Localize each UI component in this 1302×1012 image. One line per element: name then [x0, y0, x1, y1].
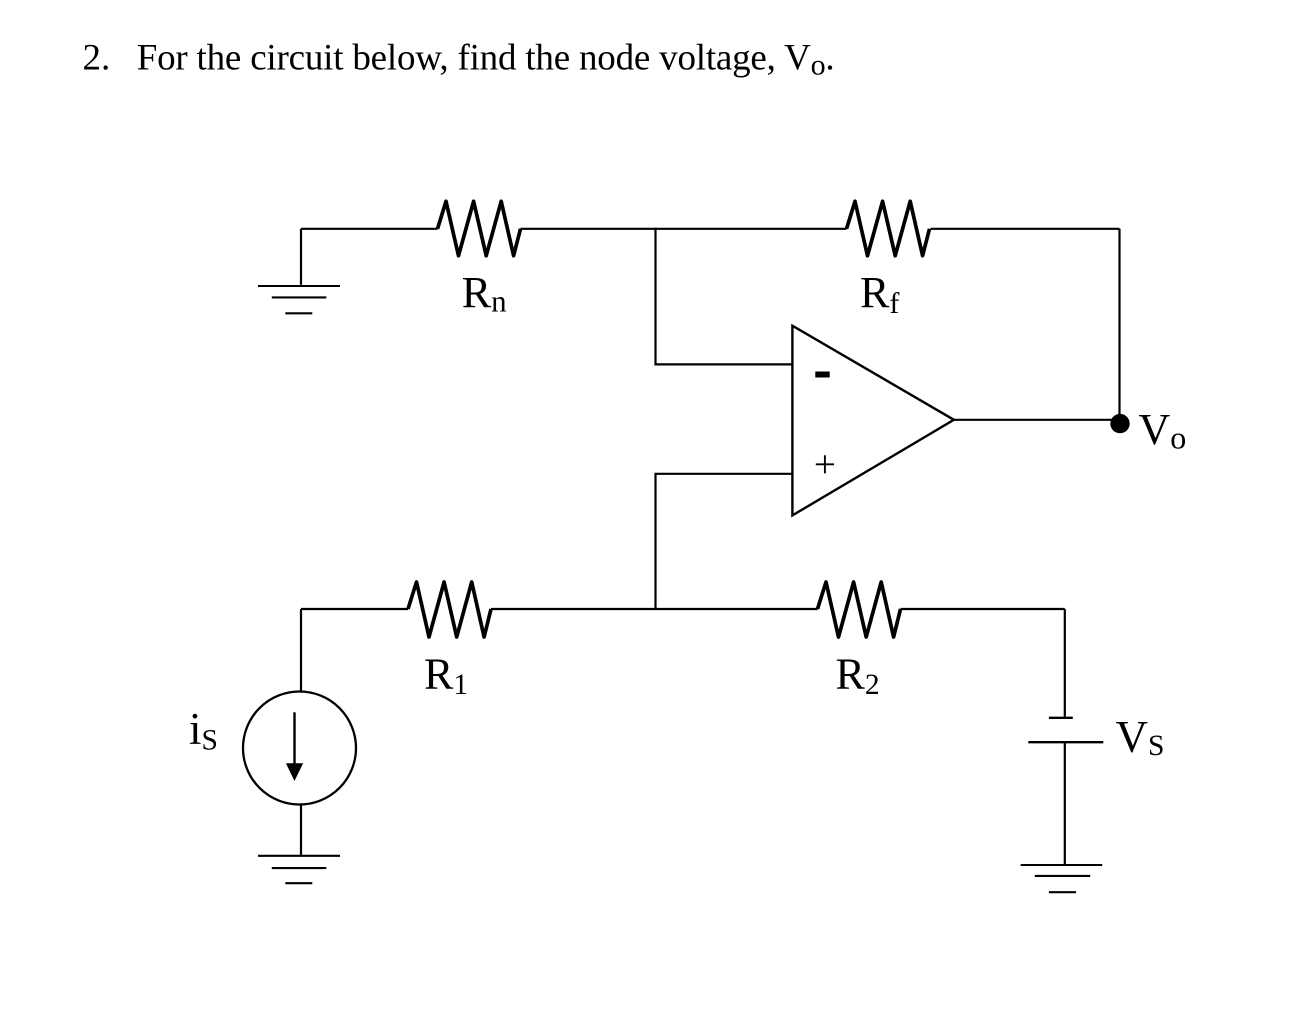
- svg-text:VS: VS: [1116, 712, 1165, 762]
- svg-text:For the circuit below, find th: For the circuit below, find the node vol…: [137, 38, 835, 82]
- svg-text:Rf: Rf: [860, 268, 899, 320]
- svg-text:Rn: Rn: [462, 268, 507, 319]
- svg-text:iS: iS: [189, 704, 218, 757]
- svg-text:R1: R1: [424, 650, 468, 701]
- svg-text:R2: R2: [836, 650, 880, 701]
- svg-text:Vo: Vo: [1139, 405, 1187, 456]
- svg-text:2.: 2.: [83, 38, 111, 79]
